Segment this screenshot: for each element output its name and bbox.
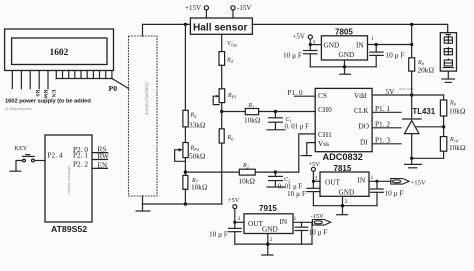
ADC0832 box [315, 88, 372, 151]
wire DO stub [372, 127, 401, 129]
wire R10 to ground line [443, 151, 445, 158]
R5 column wire [184, 24, 186, 110]
svg-text:1: 1 [371, 36, 374, 42]
svg-text:P1. 3: P1. 3 [375, 135, 390, 144]
wire Vout [221, 34, 223, 51]
svg-text:0. 01 μ F: 0. 01 μ F [285, 124, 310, 131]
resistor R6 [219, 112, 234, 144]
svg-text:IN: IN [358, 175, 366, 184]
svg-text:10 μ F: 10 μ F [386, 51, 405, 60]
svg-text:50kΩ: 50kΩ [189, 152, 206, 161]
svg-text:RW: RW [98, 151, 109, 160]
ground (storage battery) [442, 79, 455, 82]
node (R7 top / R2 wire) [184, 170, 187, 173]
svg-text:+15V: +15V [411, 179, 426, 186]
svg-text:CH1: CH1 [318, 130, 332, 139]
wire right cap drop [311, 222, 313, 244]
svg-text:10 μ F: 10 μ F [309, 227, 328, 236]
svg-text:10 μ F: 10 μ F [209, 229, 228, 238]
wire R5 to RP2 [184, 127, 186, 143]
resistor R5 [183, 110, 206, 129]
node [341, 204, 344, 207]
wire P2.2 to EN [92, 167, 108, 169]
bottom rail wire [143, 203, 223, 205]
+5V terminal (7915) [228, 197, 240, 222]
+15V supply terminal [185, 4, 208, 18]
potentiometer RP2 [175, 143, 206, 162]
LCD pin 2 [20, 71, 22, 89]
wire CLK stub [372, 111, 401, 113]
svg-text:RP1: RP1 [227, 93, 237, 100]
wire RP2 to R7 [184, 158, 186, 176]
wire R2 to CH1 riser [255, 171, 299, 173]
capacitor 10uF (7915 right) [295, 222, 327, 244]
corner to storage battery [447, 24, 449, 32]
node [312, 180, 315, 183]
svg-text:P1. 1: P1. 1 [375, 104, 390, 113]
GND pin 2 stem [342, 196, 344, 214]
wire IN to -15V flag [293, 221, 312, 223]
resistor R10 [440, 137, 466, 152]
svg-text:+5V: +5V [228, 197, 240, 204]
node [266, 242, 269, 245]
svg-text:7805: 7805 [335, 27, 353, 36]
svg-text:10kΩ: 10kΩ [449, 143, 466, 152]
node on rail (R5 column) [184, 23, 187, 26]
-15V flag connector [311, 213, 331, 225]
svg-text:2: 2 [345, 199, 348, 205]
svg-text:R1: R1 [248, 103, 255, 110]
wire R4 to RP1 [221, 65, 223, 89]
bottom wire 7805 [310, 66, 376, 68]
capacitor C2 [269, 172, 303, 190]
+5V terminal (7815) [309, 161, 321, 181]
MCU AT89S52 box [45, 135, 92, 222]
wire OUT (7915) [235, 221, 244, 223]
resistor R9 [440, 100, 466, 116]
svg-text:CLK: CLK [354, 106, 369, 115]
resistor R7 [183, 175, 208, 191]
svg-text:EN: EN [98, 160, 108, 169]
node [233, 221, 236, 224]
data bus line [56, 78, 112, 80]
wire battery bottom [142, 196, 144, 204]
wire ref to TL431 [417, 126, 444, 128]
ground bar (C1) [267, 129, 285, 131]
GND pin 2 stem (7915) [267, 234, 269, 255]
svg-text:GND: GND [339, 188, 355, 197]
svg-text:VOut: VOut [227, 41, 238, 48]
resistor R8 [409, 58, 435, 75]
svg-text:Hall sensor: Hall sensor [193, 22, 247, 33]
svg-text:IN: IN [356, 41, 364, 50]
+15V flag connector [391, 179, 426, 187]
svg-text:IN: IN [280, 217, 288, 226]
svg-text:R4: R4 [226, 58, 234, 65]
node [375, 43, 378, 46]
wire OUT [313, 180, 320, 182]
potentiometer RP1 [213, 89, 236, 105]
svg-text:Minimum system: Minimum system [67, 166, 71, 194]
resistor R1 [244, 103, 261, 125]
wire Vdd to 5V rail [372, 94, 444, 96]
wire node to R2 [185, 171, 239, 173]
svg-text:10kΩ: 10kΩ [191, 183, 208, 192]
LCD pin 1 [11, 71, 13, 89]
svg-text:10 μ F: 10 μ F [283, 51, 302, 60]
wire P2.1 to RW [92, 159, 108, 161]
svg-text:R6: R6 [227, 135, 235, 142]
svg-text:20kΩ: 20kΩ [418, 65, 435, 74]
capacitor 10uF (7805 right) [370, 45, 405, 67]
node on rail (R8 column) [410, 23, 413, 26]
node Vdd/TL431 [410, 93, 413, 96]
ground (7815) [337, 214, 348, 216]
resistor R2 [239, 163, 256, 185]
LCD module 1602 outer box [5, 29, 114, 71]
node C1 junction [274, 110, 277, 113]
battery box (Daiyang battery) [129, 36, 158, 196]
-15V supply terminal [231, 4, 251, 18]
svg-text:10kΩ: 10kΩ [239, 177, 256, 186]
svg-text:+5V: +5V [293, 34, 305, 41]
wire DI stub [372, 143, 401, 145]
LCD 1602 inner box [12, 38, 107, 65]
ground (battery) [136, 204, 150, 211]
capacitor 10uF (7815 left) [287, 181, 320, 205]
wire R8 to TL431 [411, 71, 413, 118]
svg-text:3: 3 [238, 216, 241, 222]
svg-text:P2. 1: P2. 1 [73, 151, 88, 160]
svg-text:CS: CS [318, 91, 327, 100]
svg-text:(D-Bing Needed): (D-Bing Needed) [5, 107, 32, 111]
wire P1.0 to CS [295, 95, 316, 97]
ground (7915) [262, 254, 273, 256]
regulator 7915 [244, 204, 293, 234]
bus diagonal to P0 [113, 79, 129, 89]
ground (7805) [340, 73, 351, 75]
wire 5V to R9 [443, 95, 445, 100]
node ref divider [442, 125, 445, 128]
LCD pin 4 RS [38, 71, 40, 89]
svg-text:10kΩ: 10kΩ [449, 107, 466, 116]
svg-text:OUT: OUT [325, 177, 341, 186]
bottom wire 7815 [313, 205, 377, 207]
capacitor C1 [269, 112, 310, 131]
storage battery box [440, 33, 456, 71]
svg-text:1602 power supply (to be added: 1602 power supply (to be added [5, 99, 91, 105]
svg-text:GND: GND [339, 50, 355, 59]
LCD pin 5 RW [47, 71, 49, 89]
svg-text:GND: GND [324, 41, 340, 50]
svg-text:7915: 7915 [259, 204, 277, 213]
svg-text:EN: EN [50, 90, 56, 98]
resistor R4 [219, 52, 234, 66]
svg-text:P2. 4: P2. 4 [48, 150, 63, 159]
storage battery glyphs [443, 35, 455, 68]
svg-text:Vdd: Vdd [354, 91, 367, 100]
wire +5V node to 7805 [310, 44, 321, 46]
Hall sensor box [190, 18, 252, 34]
svg-text:3: 3 [315, 176, 318, 182]
wire node to R1 [222, 111, 246, 113]
ground (TL431) [405, 158, 422, 168]
svg-text:DO: DO [359, 122, 370, 131]
wire R1 to CH0 [259, 111, 316, 113]
svg-text:C1: C1 [286, 117, 292, 124]
svg-text:2: 2 [270, 237, 273, 243]
svg-text:Daiyang battery: Daiyang battery [145, 83, 150, 116]
svg-text:CH0: CH0 [318, 105, 332, 114]
svg-text:AT89S52: AT89S52 [51, 224, 87, 234]
svg-text:TL431: TL431 [413, 107, 436, 116]
wire key to P2.4 [34, 160, 45, 162]
svg-text:GND: GND [262, 225, 278, 234]
svg-text:10kΩ: 10kΩ [244, 116, 261, 125]
svg-text:Vss: Vss [318, 139, 329, 148]
svg-text:RS: RS [34, 90, 40, 97]
ground bar (C2) [267, 186, 285, 188]
svg-text:P2. 2: P2. 2 [73, 160, 88, 169]
LCD data bus pins D0-D7 [56, 71, 112, 79]
svg-text:33kΩ: 33kΩ [189, 121, 206, 130]
svg-text:P0: P0 [109, 84, 118, 93]
wire riser to CH1 [299, 134, 315, 172]
svg-text:R5: R5 [190, 113, 198, 120]
wire IN to +15V flag [369, 180, 391, 182]
ground line TL431/R10 [412, 157, 444, 159]
bottom wire 7915 [235, 243, 312, 245]
svg-text:10 μ F: 10 μ F [287, 189, 306, 198]
node [309, 43, 312, 46]
svg-text:+15V: +15V [185, 4, 201, 12]
node [343, 65, 346, 68]
svg-text:1602: 1602 [50, 48, 69, 58]
node rail junction [184, 202, 187, 205]
wire battery to ground [447, 71, 449, 79]
ground (key) [10, 170, 21, 172]
svg-text:DI: DI [360, 138, 368, 147]
wire Vss to ground [307, 143, 315, 156]
wire R6 down to bottom rail [221, 143, 223, 204]
node [410, 43, 413, 46]
svg-text:5V: 5V [386, 87, 396, 96]
wire R9 to node [443, 116, 445, 137]
wire R7 to bottom rail [184, 189, 186, 204]
wire P2.0 to RS [92, 152, 108, 154]
node C2 junction [274, 170, 277, 173]
TL431 shunt regulator [403, 107, 436, 158]
wire RP1 to node [221, 103, 223, 112]
wire IN to R8 column [368, 44, 412, 46]
LCD pin 3 [29, 71, 31, 89]
svg-text:10 μ F: 10 μ F [385, 188, 404, 197]
svg-text:R2: R2 [242, 163, 250, 170]
svg-text:-15V: -15V [237, 4, 251, 12]
node [375, 180, 378, 183]
node [410, 157, 413, 160]
wire rail to R8 [411, 24, 413, 57]
capacitor 10uF (7815 right) [371, 181, 404, 205]
top rail wire left [143, 23, 191, 25]
+5V terminal [293, 34, 313, 45]
wire key to ground [16, 161, 23, 171]
svg-text:P1. 2: P1. 2 [375, 119, 390, 128]
regulator 7815 [320, 164, 369, 197]
svg-text:1: 1 [294, 216, 297, 222]
svg-text:ADC0832: ADC0832 [323, 152, 363, 162]
GND pin stem [344, 60, 346, 74]
ground (Vss) [301, 155, 312, 157]
wire battery top to rail [142, 24, 144, 36]
capacitor 10uF (7915 left) [209, 222, 241, 244]
capacitor 10uF (7805 left) [283, 45, 317, 67]
svg-text:P1. 0: P1. 0 [288, 88, 303, 97]
svg-text:-15V: -15V [311, 213, 325, 220]
key switch KEY [14, 145, 34, 162]
top rail wire right [252, 23, 447, 25]
svg-text:KEY: KEY [14, 145, 27, 152]
svg-text:1: 1 [371, 175, 374, 181]
node junction [220, 110, 223, 113]
regulator 7805 [321, 27, 367, 60]
